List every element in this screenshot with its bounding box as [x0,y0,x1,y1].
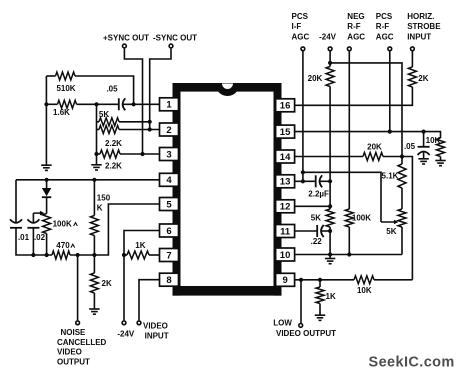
wiper arrow to 100K pot [33,212,41,214]
svg-text:10: 10 [280,250,291,261]
wire 2K to horiz terminal [411,51,413,67]
capacitor .02 [27,219,39,223]
node 100K bottom [45,253,49,257]
resistor 1.6K [58,100,77,108]
svg-text:20K: 20K [308,74,323,83]
svg-text:+SYNC OUT: +SYNC OUT [103,34,149,43]
svg-text:VIDEO: VIDEO [57,348,82,357]
svg-text:20K: 20K [367,143,382,152]
svg-text:2.2K: 2.2K [105,139,122,148]
wire 2.2K-2 left [97,153,101,155]
wire 100K to bottom row [46,234,48,256]
wire 100K to pin10 row [348,227,350,255]
svg-text:100K: 100K [53,220,72,229]
pin 7 [160,249,179,262]
svg-text:AGC: AGC [292,32,310,41]
wire .01 to bottom row [16,228,52,255]
svg-text:.22: .22 [311,237,323,246]
wire -24V vertical bottom [329,227,331,258]
pin 11 [276,225,295,238]
wire 5K left [97,121,100,123]
terminal PCS R-F AGC [388,47,392,51]
terminal VIDEO INPUT [137,321,141,325]
wire diode to 100K pot [46,197,48,213]
wire -24V branch to 5.1K [330,63,402,164]
terminal -24V (top) [328,47,332,51]
pin 14 [276,150,295,163]
node .22/-24V [328,229,332,233]
wire -sync out [150,49,171,130]
svg-text:16: 16 [280,101,291,112]
wire -24V vertical top [329,51,331,66]
wire +sync out [124,49,142,154]
ground [91,165,101,170]
node 510K/pin1 [132,102,136,106]
ground [418,159,428,164]
node .05/pin15 [422,130,426,134]
potentiometer 5K [398,209,406,227]
svg-text:1K: 1K [326,292,336,301]
svg-text:.05: .05 [106,85,118,94]
wire .02 bottom lead [32,228,34,255]
wire bypass pin14 to pin9 [402,157,412,280]
resistor 100K (right) [345,209,353,227]
terminal NOISE CANCELLED VIDEO OUTPUT [76,321,80,325]
wire 5.1K to 5K pot [401,188,403,209]
svg-text:1K: 1K [135,241,145,250]
diode D1 [46,180,48,188]
wire 510K to pin1 node [75,76,134,104]
node rail/pin1 [44,102,48,106]
resistor 20K (pin14) [363,153,383,161]
svg-text:150: 150 [97,194,111,203]
wire top rail [46,75,55,77]
wire pin1 row left [46,103,57,105]
node 1K top [318,278,322,282]
svg-text:NOISE: NOISE [61,328,87,337]
svg-text:5.1K: 5.1K [382,171,399,180]
wire 5K pot to pin10 row [401,227,403,255]
pin 16 [276,99,295,112]
node -sync/pin2 [148,127,152,131]
svg-text:AGC: AGC [347,32,365,41]
wire pin 16 row [295,87,413,105]
svg-text:3: 3 [166,149,171,160]
svg-text:5K: 5K [99,110,109,119]
wire pin 15 row [295,132,441,138]
wire pin 14 row [295,156,364,158]
resistor 150K [90,216,98,236]
pin 8 [160,273,179,286]
svg-text:.02: .02 [34,233,46,242]
node .02 bottom [31,253,35,257]
pin 2 [160,123,179,136]
svg-text:-24V: -24V [117,330,135,339]
terminal LOW VIDEO OUTPUT [299,324,303,328]
wire video input to pin 8 [139,280,160,321]
svg-text:4: 4 [166,175,172,186]
svg-text:STROBE: STROBE [407,22,441,31]
ground [435,161,445,166]
svg-text:INPUT: INPUT [145,331,169,340]
ground [89,309,99,314]
wire to pin 3 [120,153,160,155]
pin 3 [160,148,179,161]
svg-text:INPUT: INPUT [407,32,431,41]
resistor 2.2K (lower) [100,150,120,158]
wire NEG R-F AGC vertical [348,51,350,209]
svg-text:OUTPUT: OUTPUT [57,357,90,366]
svg-text:LOW: LOW [273,318,292,327]
svg-text:SeekIC.com: SeekIC.com [369,355,455,371]
ground [41,165,51,170]
svg-text:6: 6 [166,226,171,237]
resistor 10K (right) [437,138,445,157]
resistor 1K (pin9) [319,280,321,287]
node low video output [299,278,303,282]
svg-text:2K: 2K [418,74,428,83]
svg-text:1: 1 [166,100,172,111]
svg-text:VIDEO OUTPUT: VIDEO OUTPUT [276,329,336,338]
node pin1/branch [94,102,98,106]
svg-text:R-F: R-F [376,22,389,31]
svg-text:100K: 100K [352,214,371,223]
svg-text:NEG: NEG [347,12,364,21]
node wiper branch [301,170,305,174]
wire 150K top lead [93,180,95,216]
svg-text:11: 11 [280,226,291,237]
node pin10 row/-24V [328,252,332,256]
wire pin 13 row [295,180,316,182]
svg-text:R-F: R-F [347,22,360,31]
ground [315,315,325,320]
node 5K/-sync [148,120,152,124]
svg-text:9: 9 [282,275,287,286]
pin 9 [276,273,295,286]
svg-text:.05: .05 [404,142,416,151]
wire pin4 row [16,179,160,181]
capacitor .22 [316,225,318,237]
svg-text:-24V: -24V [319,32,337,41]
wire to pin 2 [119,129,160,131]
node 150K top [92,178,96,182]
wire 10K right [374,279,412,281]
terminal NEG R-F AGC [347,47,351,51]
wire .02 top lead [32,213,34,223]
node 2.2uF/-24V [328,179,332,183]
svg-text:470: 470 [56,241,70,250]
capacitor .05 (right) [423,132,425,147]
pin 12 [276,200,295,213]
node pcs rf/pin15 [388,130,392,134]
node 150K/2K [92,253,96,257]
resistor 5.1K [398,164,406,188]
wire to ground 2 [96,154,98,165]
resistor 5K [99,118,119,126]
wire 5K right [119,121,150,123]
wire bottom row to pin 5 [70,204,160,255]
node pcs if/pin13 [301,179,305,183]
resistor 1K (pin7) [124,254,127,256]
wire cap to pin 1 [123,103,160,105]
pin 6 [160,224,179,237]
resistor 2K (horiz strobe) [408,67,416,87]
svg-text:5: 5 [166,199,172,210]
wire pin 6 to -24V terminal [124,231,160,321]
terminal +SYNC OUT [123,44,127,48]
svg-text:AGC: AGC [376,32,394,41]
node video output [76,253,80,257]
capacitor 2.2uF [315,175,317,187]
svg-text:8: 8 [166,275,171,286]
node 1K/-24V [122,253,126,257]
svg-text:12: 12 [280,202,291,213]
wire 150K to 2K [93,236,95,274]
terminal -24V (bottom) [122,321,126,325]
wire 2.2uF to -24V [320,180,330,182]
svg-text:5K: 5K [386,227,396,236]
svg-text:2.2K: 2.2K [105,162,122,171]
svg-text:PCS: PCS [292,12,309,21]
wire left rail 2 [15,180,17,223]
wire pin 12 row [295,205,331,207]
svg-text:2: 2 [166,125,171,136]
svg-text:10K: 10K [426,136,441,145]
wire PCS I-F AGC vertical [302,51,304,181]
resistor 2.2K (upper) [99,126,119,134]
capacitor .05 (pin1) [118,98,120,110]
ground [325,259,335,264]
potentiometer 100K [43,214,51,234]
node diode top [45,178,49,182]
svg-text:-SYNC OUT: -SYNC OUT [153,34,197,43]
svg-text:K: K [97,204,103,213]
wire wiper branch [303,172,381,222]
pin 10 [276,248,295,261]
svg-text:15: 15 [280,127,291,138]
pin 4 [160,173,179,186]
pin 1 [160,98,179,111]
terminal -SYNC OUT [169,44,173,48]
node pin14/5.1K [400,154,404,158]
resistor 20K (-24V) [326,67,334,87]
resistor 470 [52,251,70,259]
svg-text:I-F: I-F [292,22,302,31]
wire left rail [45,76,47,165]
node pin12/-24V [328,204,332,208]
svg-text:13: 13 [280,177,291,188]
resistor 2K (left) [90,273,98,293]
node 100K bottom [347,252,351,256]
wire 2.2K-1 left [97,129,100,131]
pin 13 [276,175,295,188]
wire 20K to node [383,156,402,158]
svg-text:HORIZ.: HORIZ. [407,12,434,21]
wire 10K to ground [440,157,442,161]
wire pin 10 row [295,254,403,256]
wire to noise output terminal [77,255,79,320]
op IC body 16-pin DIP [173,83,282,296]
wire branch vertical [96,104,98,154]
svg-text:PCS: PCS [376,12,393,21]
svg-text:14: 14 [280,152,291,163]
wire 1K to ground [319,304,321,315]
resistor 5K (-24V) [326,209,334,227]
wire pin 11 row [295,230,318,232]
wire PCS R-F AGC vertical [389,51,391,131]
wiper arrow to 5K pot [381,221,395,223]
resistor 510K [56,72,76,80]
pin 15 [276,125,295,138]
capacitor .01 [10,219,22,223]
node +sync/pin3 [140,152,144,156]
pin 5 [160,198,179,211]
svg-text:5K: 5K [311,214,321,223]
wire pin 9 row [295,279,355,281]
svg-text:10K: 10K [357,286,372,295]
resistor 10K (pin9) [354,276,374,284]
svg-text:.01: .01 [18,233,30,242]
node 2.2K/ground [94,152,98,156]
wire .22 to -24V [321,230,330,232]
svg-text:CANCELLED: CANCELLED [57,338,107,347]
svg-text:2K: 2K [102,279,112,288]
svg-text:1.6K: 1.6K [53,108,70,117]
wire 2K to ground [93,293,95,309]
svg-text:7: 7 [166,250,171,261]
wire 1.6K to cap [77,103,119,105]
node -24V branch [328,61,332,65]
terminal PCS I-F AGC [301,47,305,51]
wire -24V vertical mid [329,87,331,210]
wire .05 to ground [423,152,425,158]
svg-text:510K: 510K [56,84,75,93]
wire to low video output terminal [300,280,302,323]
terminal HORIZ STROBE INPUT [411,47,415,51]
svg-text:2.2µF: 2.2µF [308,190,329,199]
svg-text:VIDEO: VIDEO [143,322,168,331]
